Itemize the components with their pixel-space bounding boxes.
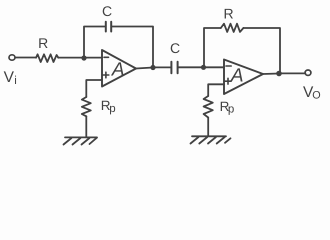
op-amp U1 minus sign xyxy=(104,56,109,58)
input terminal Vi xyxy=(9,55,15,60)
svg-text:A: A xyxy=(111,60,125,81)
wire node D to output terminal xyxy=(279,72,305,74)
op-amp U1 xyxy=(102,50,136,87)
node B junction xyxy=(150,65,155,70)
capacitor C (feedback 1) plates xyxy=(106,22,111,32)
svg-text:A: A xyxy=(230,66,244,87)
output terminal Vo xyxy=(305,70,311,75)
wire node B to coupling capacitor xyxy=(153,66,171,68)
node A junction xyxy=(81,55,86,60)
wire input to R xyxy=(15,57,36,59)
wire coupling cap to node C and U2 minus input xyxy=(178,66,224,68)
resistor R (input) xyxy=(36,54,58,62)
wire U1 output to node B xyxy=(136,68,153,69)
svg-text:C: C xyxy=(102,3,112,19)
wire node C up to feedback resistor xyxy=(204,28,221,67)
wire U2 output to node D xyxy=(263,73,279,76)
op-amp U2 plus sign xyxy=(225,78,231,84)
resistor R (feedback 2) xyxy=(221,24,244,32)
node C junction xyxy=(201,65,206,70)
capacitor C (coupling) plates xyxy=(171,62,177,73)
ground (stage 1) xyxy=(64,137,98,144)
wire Rp to ground (stage 2) xyxy=(207,118,209,137)
svg-text:R: R xyxy=(38,35,48,51)
svg-text:i: i xyxy=(14,75,17,87)
svg-text:V: V xyxy=(4,69,15,86)
wire node A up to feedback capacitor xyxy=(84,27,105,59)
resistor Rp (stage 2) xyxy=(204,96,213,118)
wire feedback cap to op-amp output node xyxy=(112,27,153,68)
svg-text:C: C xyxy=(170,40,180,56)
wire feedback resistor to U2 output node xyxy=(243,28,280,73)
svg-text:p: p xyxy=(228,104,234,116)
svg-text:O: O xyxy=(312,90,320,102)
op-amp U1 plus sign xyxy=(103,72,109,78)
wire R to node A and op-amp minus input xyxy=(58,57,102,59)
op-amp U2 minus sign xyxy=(226,65,231,67)
resistor Rp (stage 1) xyxy=(82,97,91,116)
svg-text:p: p xyxy=(109,103,115,115)
wire U1 plus input to Rp xyxy=(86,80,102,97)
svg-text:R: R xyxy=(223,6,233,22)
op-amp U2 xyxy=(224,60,263,95)
wire U2 plus input to Rp xyxy=(208,84,224,96)
wire Rp to ground xyxy=(85,116,87,137)
node D junction xyxy=(276,71,282,77)
ground (stage 2) xyxy=(191,136,231,143)
